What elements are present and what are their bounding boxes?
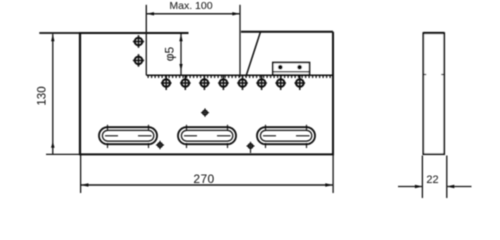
- svg-text:130: 130: [37, 86, 49, 105]
- svg-text:Max. 100: Max. 100: [169, 0, 212, 12]
- svg-text:φ5: φ5: [162, 46, 176, 61]
- svg-text:270: 270: [193, 172, 214, 186]
- svg-text:22: 22: [426, 174, 438, 186]
